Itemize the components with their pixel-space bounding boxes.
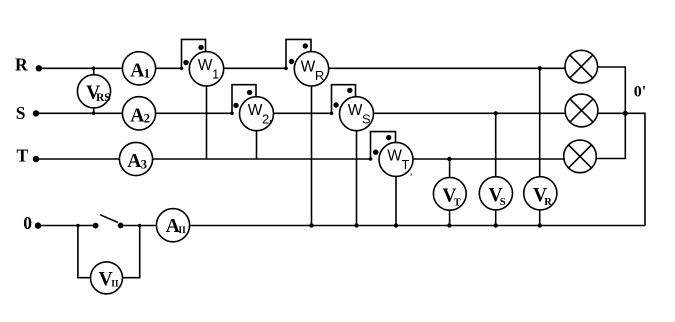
lamp S phase <box>565 94 598 127</box>
wattmeter W1 <box>182 39 224 86</box>
svg-text:II: II <box>178 226 186 236</box>
wire <box>124 225 157 227</box>
junction dot <box>330 112 334 116</box>
junction dot <box>230 112 234 116</box>
wire <box>153 158 371 160</box>
wire <box>329 67 566 69</box>
terminal dot S <box>33 110 39 116</box>
svg-text:II: II <box>111 279 119 289</box>
voltmeter VR <box>524 68 557 225</box>
voltmeter VII <box>78 226 140 294</box>
junction dot <box>623 111 628 116</box>
voltmeter VRS <box>77 67 110 116</box>
wire <box>374 112 566 114</box>
switch blade <box>100 215 118 223</box>
junction dot <box>369 157 373 161</box>
lamp T phase <box>564 140 597 173</box>
junction dot <box>180 67 184 71</box>
wire <box>395 176 397 225</box>
svg-text:0': 0' <box>634 83 646 100</box>
svg-text:W: W <box>301 59 316 76</box>
wattmeter W2 <box>232 85 274 131</box>
junction dot <box>309 223 313 227</box>
svg-text:R: R <box>544 197 552 208</box>
node R <box>15 55 28 75</box>
junction dot <box>354 223 358 227</box>
junction dot <box>494 223 498 227</box>
junction dot <box>447 157 451 161</box>
ammeter A3 <box>119 142 152 175</box>
svg-text:A: A <box>130 60 144 81</box>
junction dot <box>538 223 542 227</box>
junction dot <box>284 67 288 71</box>
junction dot <box>76 224 80 228</box>
ammeter AII <box>156 209 189 242</box>
switch contact dot left <box>93 223 99 229</box>
wire <box>224 67 286 69</box>
node T <box>17 146 29 166</box>
svg-text:1: 1 <box>144 67 150 81</box>
wire <box>274 112 332 114</box>
svg-text:W: W <box>198 57 213 74</box>
ammeter A2 <box>122 97 155 130</box>
svg-text:S: S <box>16 103 26 123</box>
wire <box>206 86 208 159</box>
wire <box>39 158 119 160</box>
svg-text:,: , <box>410 166 413 178</box>
wire <box>41 67 123 69</box>
ammeter A1 <box>122 52 155 85</box>
node 0 <box>23 213 32 233</box>
svg-text:A: A <box>127 151 141 172</box>
svg-text:A: A <box>130 105 144 126</box>
wire <box>41 225 96 227</box>
junction dot <box>394 223 398 227</box>
svg-text:S: S <box>362 111 371 126</box>
svg-text:1: 1 <box>212 66 219 81</box>
wire <box>256 131 258 159</box>
wire <box>156 112 232 114</box>
junction dot <box>447 223 451 227</box>
wire <box>190 225 645 227</box>
wattmeter WR <box>286 39 329 86</box>
svg-text:R: R <box>15 55 28 75</box>
svg-text:T: T <box>402 157 410 172</box>
node S <box>16 103 26 123</box>
svg-text:T: T <box>454 198 461 209</box>
svg-text:RS: RS <box>96 92 111 104</box>
junction dot <box>494 111 498 115</box>
wattmeter WS <box>332 85 374 131</box>
wire <box>625 113 645 225</box>
svg-text:W: W <box>348 102 363 119</box>
wire <box>156 67 182 69</box>
junction dot <box>138 224 142 228</box>
terminal dot 0 <box>35 222 41 228</box>
lamp R phase <box>565 50 598 83</box>
wire <box>413 158 565 160</box>
voltmeter VT <box>433 159 466 226</box>
switch contact dot right <box>118 223 124 229</box>
voltmeter VS <box>479 113 512 225</box>
terminal dot T <box>33 156 39 162</box>
wire <box>598 112 626 114</box>
svg-text:T: T <box>17 146 29 166</box>
svg-text:R: R <box>315 68 324 83</box>
svg-text:2: 2 <box>144 112 150 126</box>
svg-text:W: W <box>387 148 402 165</box>
wire <box>311 86 313 226</box>
node 0' <box>634 83 646 100</box>
wire <box>596 67 625 159</box>
svg-text:0: 0 <box>23 213 32 233</box>
junction dot <box>538 66 542 70</box>
wire <box>356 131 358 226</box>
terminal dot R <box>36 65 42 71</box>
wire <box>39 112 123 114</box>
wattmeter WT <box>371 132 414 178</box>
svg-text:,: , <box>269 110 273 125</box>
svg-text:S: S <box>500 197 506 208</box>
svg-text:3: 3 <box>141 157 147 171</box>
svg-text:W: W <box>248 102 263 119</box>
